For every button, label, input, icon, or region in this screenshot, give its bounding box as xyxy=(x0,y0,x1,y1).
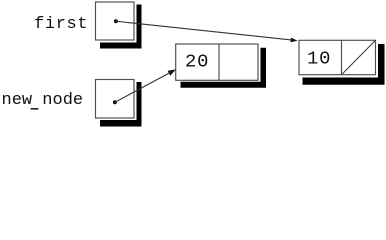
pointer box first: drop shadow xyxy=(100,5,142,49)
node 10 divider xyxy=(341,40,343,74)
node 20 divider xyxy=(218,44,220,80)
svg-text:20: 20 xyxy=(185,51,209,73)
node 10 box xyxy=(299,40,376,74)
wire: first dot to node 10 xyxy=(116,21,291,40)
node 20 box xyxy=(176,44,258,80)
pointer dot new_node xyxy=(113,100,117,104)
svg-text:10: 10 xyxy=(307,47,331,69)
pointer box first xyxy=(96,2,135,40)
svg-text:node: node xyxy=(42,91,83,110)
arrowhead into node 20 xyxy=(168,69,176,75)
pointer dot first xyxy=(114,19,118,23)
node 10 null diagonal xyxy=(342,40,376,74)
pointer box new_node: drop shadow xyxy=(100,82,142,127)
arrowhead into node 10 xyxy=(290,38,297,43)
pointer box new_node xyxy=(96,80,135,119)
node 20: drop shadow xyxy=(181,48,267,88)
wire: new_node dot to node 20 xyxy=(115,73,170,103)
node 10: drop shadow xyxy=(303,44,385,85)
label new_node: underscore xyxy=(31,108,39,110)
svg-text:first: first xyxy=(34,15,88,34)
svg-text:new: new xyxy=(2,91,33,110)
